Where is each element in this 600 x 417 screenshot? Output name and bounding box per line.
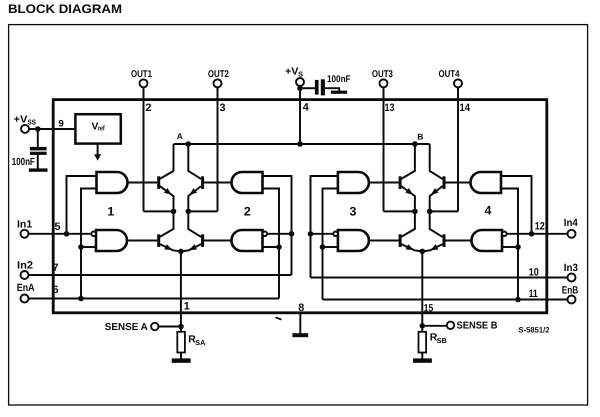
wire sense A vertical (pin 1) — [180, 251, 182, 331]
wire In2 row (pin 7) — [29, 274, 292, 276]
node In2 riser at bubble row — [289, 231, 295, 237]
wire gate 4 upper output — [445, 182, 471, 184]
ground under RSA — [172, 358, 191, 362]
svg-text:5: 5 — [55, 221, 61, 233]
wire +Vs to capacitor C2 — [303, 87, 315, 89]
wire +Vs rail — [174, 143, 430, 145]
svg-text:OUT4: OUT4 — [439, 69, 460, 80]
wire gate 4 lower output — [445, 240, 472, 242]
svg-text:14: 14 — [460, 102, 471, 114]
svg-text:In4: In4 — [564, 217, 578, 229]
resistor RSB — [419, 332, 447, 353]
transistor Q5 bridge B upper-left — [399, 144, 415, 211]
node bridge A left output — [171, 209, 177, 215]
and-gate G3a channel 3 upper — [338, 172, 369, 193]
wire gate 4 lower enable stub — [502, 246, 518, 248]
svg-text:SENSE B: SENSE B — [457, 320, 498, 331]
svg-text:12: 12 — [535, 220, 545, 232]
terminal +Vss — [14, 115, 37, 133]
wire gate 1 upper output — [128, 182, 158, 184]
wire EnB riser to gate 4 — [501, 189, 518, 300]
svg-text:2: 2 — [244, 204, 251, 218]
and-gate G1b channel 1 lower (inverting input) — [91, 230, 127, 251]
wire gate 2 upper output — [204, 182, 232, 184]
svg-text:SB: SB — [437, 336, 447, 345]
svg-text:2: 2 — [146, 102, 152, 114]
wire In4 row (pin 12) — [507, 233, 568, 235]
svg-text:A: A — [177, 131, 183, 141]
node EnB riser at gate 4 lower — [515, 244, 521, 250]
node sense B junction — [420, 323, 426, 329]
terminal OUT4 — [439, 69, 463, 87]
wire RSB to ground — [421, 353, 423, 359]
terminal In4 — [564, 217, 578, 238]
node sense A junction — [178, 324, 184, 330]
node EnA riser at gate 1 lower — [78, 244, 84, 250]
capacitor C1 100nF — [12, 147, 47, 168]
svg-text:SS: SS — [28, 117, 37, 126]
wire In3 riser to gate 3 — [311, 176, 338, 278]
node bridge A emitter common — [178, 249, 184, 255]
wire gate 2 lower enable stub — [263, 246, 280, 248]
transistor Q3 bridge A lower-left — [157, 211, 181, 252]
wire SENSE A to junction — [159, 326, 179, 328]
and-gate G3b channel 3 lower (inverting input) — [333, 230, 369, 251]
wire OUT4 to bridge B right node — [430, 210, 458, 212]
svg-text:SENSE A: SENSE A — [105, 322, 148, 333]
terminal SENSE A — [105, 322, 159, 333]
svg-text:7: 7 — [53, 262, 59, 274]
transistor Q1 bridge A upper-left — [157, 144, 173, 211]
wire EnB riser to gate 3 — [323, 189, 338, 300]
wire gate 1 lower output — [127, 240, 157, 242]
svg-text:SA: SA — [195, 338, 205, 347]
node +Vs feed junction — [297, 141, 303, 147]
terminal In3 — [564, 262, 578, 281]
node bridge B left output — [412, 209, 418, 215]
node B — [412, 132, 423, 147]
wire pin 8 ground stub — [299, 313, 301, 333]
wire EnA riser to gate 1 — [81, 189, 97, 299]
wire gate 3 lower output — [369, 240, 399, 242]
wire +Vss to Vref (pin 9) — [29, 128, 75, 130]
wire junction to capacitor C1 — [37, 129, 39, 147]
node In1 riser junction — [64, 231, 70, 237]
wire In2 riser to gate 2 — [263, 176, 292, 275]
svg-text:OUT3: OUT3 — [372, 69, 393, 80]
wire gate 2 bubble stub — [267, 233, 292, 235]
wire In4 riser to gate 4 — [501, 176, 532, 234]
node A — [177, 131, 191, 147]
terminal SENSE B — [447, 320, 498, 331]
node bridge B emitter common — [420, 249, 426, 255]
wire gate 3 lower enable stub — [323, 246, 338, 248]
wire OUT3 vertical (pin 13) — [383, 88, 385, 212]
terminal OUT3 — [372, 69, 393, 87]
svg-text:In3: In3 — [564, 262, 578, 274]
svg-text:4: 4 — [485, 204, 492, 218]
svg-text:3: 3 — [220, 102, 226, 114]
svg-text:OUT1: OUT1 — [131, 69, 152, 80]
and-gate G4a channel 4 upper — [471, 172, 502, 193]
svg-text:100nF: 100nF — [327, 74, 351, 85]
regulator Vref U1 — [75, 114, 120, 143]
capacitor C2 100nF — [315, 74, 351, 95]
node EnB riser at row — [515, 297, 521, 303]
svg-text:9: 9 — [59, 118, 64, 129]
wire +Vs vertical (pin 4) — [299, 86, 301, 144]
wire gate 2 lower output — [204, 240, 232, 242]
svg-text:1: 1 — [107, 204, 114, 218]
wire EnA row (pin 6) — [29, 298, 280, 300]
terminal OUT2 — [208, 69, 229, 87]
ground under C1 — [29, 168, 48, 171]
wire EnB row (pin 11) — [323, 299, 568, 301]
wire junction to SENSE B — [425, 325, 447, 327]
node junction on +Vss wire — [35, 126, 41, 132]
svg-text:OUT2: OUT2 — [208, 69, 229, 80]
stray mark — [276, 317, 282, 319]
wire OUT4 vertical (pin 14) — [457, 88, 459, 212]
terminal OUT1 — [131, 69, 152, 87]
wire In3 row (pin 10) — [311, 277, 568, 279]
ground under C2 — [331, 91, 347, 94]
terminal EnB — [562, 285, 579, 304]
terminal In2 — [17, 260, 33, 279]
wire OUT2 to bridge A right node — [188, 210, 217, 212]
node EnA riser at row — [78, 296, 84, 302]
wire OUT1 vertical (pin 2) — [143, 88, 145, 212]
svg-text:BLOCK DIAGRAM: BLOCK DIAGRAM — [8, 2, 122, 16]
node In4 riser junction — [529, 231, 535, 237]
svg-text:S-5851/2: S-5851/2 — [519, 325, 551, 334]
svg-text:In1: In1 — [17, 219, 32, 231]
wire OUT3 to bridge B left node — [384, 210, 415, 212]
and-gate G2a channel 2 upper — [232, 172, 263, 193]
wire gate 3 upper output — [369, 182, 399, 184]
terminal In1 — [17, 219, 32, 238]
svg-text:6: 6 — [53, 284, 59, 296]
svg-text:15: 15 — [424, 302, 434, 314]
node EnB riser at gate 3 lower — [320, 244, 326, 250]
svg-text:3: 3 — [350, 204, 357, 218]
node bridge A right output — [186, 209, 192, 215]
and-gate G1a channel 1 upper — [97, 172, 128, 193]
node In3 riser at bubble row — [308, 231, 314, 237]
wire OUT1 to bridge A left node — [144, 210, 174, 212]
terminal +Vs — [285, 67, 304, 86]
wire EnA riser to gate 2 — [263, 189, 280, 299]
svg-text:11: 11 — [529, 288, 538, 300]
wire In1 row (pin 5) — [29, 233, 92, 235]
arrow from Vref down — [94, 144, 101, 161]
svg-text:4: 4 — [303, 102, 309, 114]
svg-text:ref: ref — [98, 123, 105, 132]
svg-text:EnA: EnA — [17, 282, 35, 294]
node EnA riser at gate 2 lower — [276, 244, 282, 250]
svg-text:8: 8 — [298, 302, 304, 314]
svg-text:100nF: 100nF — [12, 157, 35, 168]
svg-text:+V: +V — [285, 67, 299, 78]
transistor Q6 bridge B upper-right — [429, 144, 446, 211]
wire gate 1 lower enable stub — [81, 246, 96, 248]
svg-text:10: 10 — [529, 266, 539, 278]
svg-text:B: B — [417, 132, 423, 142]
svg-text:1: 1 — [184, 301, 190, 313]
wire RSA to ground — [180, 353, 182, 359]
ground pin 8 — [292, 333, 308, 337]
node junction +Vs — [297, 86, 303, 92]
wire In1 riser to gate 1 — [67, 176, 97, 234]
node bridge B right output — [427, 209, 433, 215]
transistor Q7 bridge B lower-left — [399, 211, 423, 252]
wire C2 to ground — [325, 88, 339, 91]
ground under RSB — [413, 358, 432, 362]
and-gate G2b channel 2 lower (inverting input) — [232, 230, 268, 251]
transistor Q4 bridge A lower-right — [181, 211, 204, 252]
terminal EnA — [17, 282, 35, 303]
svg-text:EnB: EnB — [562, 285, 579, 297]
svg-text:S: S — [298, 69, 303, 78]
IC body outline — [53, 100, 547, 313]
wire sense B vertical (pin 15) — [421, 251, 423, 331]
wire C1 to ground — [37, 155, 39, 169]
svg-text:In2: In2 — [17, 260, 33, 272]
svg-text:13: 13 — [385, 102, 395, 114]
and-gate G4b channel 4 lower (inverting input) — [472, 230, 507, 251]
transistor Q8 bridge B lower-right — [422, 211, 445, 252]
resistor RSA — [177, 332, 205, 353]
transistor Q2 bridge A upper-right — [188, 144, 205, 211]
wire gate 3 bubble stub — [311, 233, 334, 235]
wire OUT2 vertical (pin 3) — [217, 88, 219, 212]
